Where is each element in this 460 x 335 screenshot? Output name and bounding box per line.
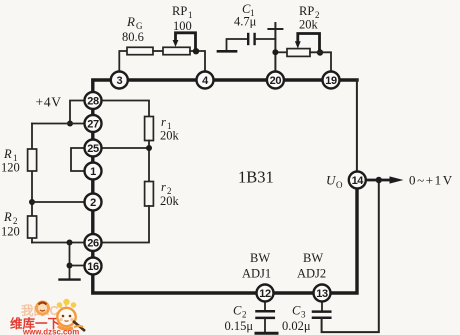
svg-text:25: 25	[87, 143, 99, 155]
loop wire pin25 to pin1	[71, 148, 84, 171]
svg-text:ADJ2: ADJ2	[297, 267, 326, 281]
svg-text:13: 13	[316, 288, 328, 300]
wire pin2	[32, 201, 84, 203]
wire +4V to pin28	[70, 101, 84, 124]
wire C1 to node	[256, 38, 276, 40]
junction pin16 wire	[67, 263, 73, 269]
svg-text:80.6: 80.6	[122, 30, 144, 44]
svg-text:19: 19	[325, 75, 337, 87]
svg-text:R: R	[3, 147, 12, 161]
wire C2 to ground	[264, 319, 266, 332]
label RP1 value	[172, 4, 193, 33]
svg-text:BW: BW	[250, 251, 270, 265]
wire RG to RP1	[153, 50, 163, 52]
label RP2 value	[299, 4, 320, 32]
wire node to RP2	[275, 51, 287, 53]
junction output node	[376, 177, 382, 183]
svg-text:BW: BW	[303, 251, 323, 265]
ground symbol C2	[256, 332, 277, 335]
pin 2	[85, 194, 102, 211]
pin 19	[323, 72, 340, 89]
svg-text:r: r	[161, 115, 166, 129]
resistor r1	[145, 117, 154, 141]
wire C3 return to output node	[322, 180, 379, 332]
label r1 value	[160, 115, 180, 143]
svg-text:R: R	[126, 14, 135, 29]
svg-text:0~+1V: 0~+1V	[409, 173, 454, 188]
resistor RG	[127, 47, 153, 54]
wire pin3 to RG	[119, 51, 128, 71]
ground for C1	[227, 39, 248, 50]
label BW ADJ1	[242, 251, 271, 281]
pin 27	[85, 115, 102, 132]
pin 16	[85, 258, 102, 275]
RP2 wiper arm	[298, 34, 320, 51]
label UO	[326, 173, 343, 191]
svg-text:1: 1	[90, 166, 96, 178]
svg-text:100: 100	[173, 19, 192, 33]
svg-text:0.02μ: 0.02μ	[282, 319, 311, 333]
svg-text:3: 3	[301, 310, 306, 320]
svg-text:2: 2	[242, 310, 247, 320]
svg-text:0.15μ: 0.15μ	[225, 319, 254, 333]
svg-text:16: 16	[87, 261, 99, 273]
pin 4	[197, 72, 214, 89]
op-amp U1 1B31 package outline	[93, 80, 357, 293]
svg-text:1B31: 1B31	[238, 168, 274, 187]
pin 14	[349, 172, 366, 189]
svg-text:26: 26	[87, 237, 99, 249]
arrow head output	[390, 176, 404, 183]
wire RP2 to pin19	[310, 52, 331, 70]
node wire above pin 20	[274, 23, 276, 71]
wire pin25 to r divider	[102, 147, 149, 149]
label C1 value	[234, 2, 257, 29]
label C2 value	[225, 304, 254, 334]
wire pin16	[70, 265, 85, 267]
svg-text:12: 12	[259, 288, 271, 300]
wire r2 bottom to pin26	[102, 206, 149, 243]
svg-text:O: O	[336, 180, 343, 190]
svg-text:C: C	[292, 304, 301, 318]
capacitor C2	[257, 310, 274, 313]
svg-text:20k: 20k	[160, 129, 180, 143]
junction r1/r2/pin25	[146, 145, 152, 151]
svg-text:28: 28	[87, 95, 99, 107]
label r2 value	[160, 180, 180, 208]
label R2 value	[1, 210, 20, 239]
label C3 value	[282, 304, 311, 334]
svg-text:R: R	[3, 210, 12, 224]
svg-text:120: 120	[1, 225, 20, 239]
resistor r2	[145, 182, 154, 207]
junction +4V / pin27 wire	[67, 121, 73, 127]
pin 28	[85, 92, 102, 109]
watermark dzsc logo	[10, 299, 85, 335]
potentiometer RP2	[287, 49, 310, 57]
wire pin12 to C2	[264, 303, 266, 311]
svg-text:27: 27	[87, 118, 99, 130]
pin 1	[85, 163, 102, 180]
svg-text:20: 20	[270, 75, 282, 87]
junction RP1 wiper/pin4	[193, 48, 199, 54]
pin 12	[257, 285, 274, 302]
pin 26	[85, 234, 102, 251]
svg-text:www.dzsc.com: www.dzsc.com	[22, 328, 79, 335]
capacitor C1	[247, 34, 249, 44]
plus polarity mark	[268, 28, 282, 30]
resistor R1	[28, 149, 37, 171]
wire RP1 to pin4	[190, 51, 205, 71]
svg-text:RP: RP	[172, 4, 187, 18]
pin 20	[267, 72, 284, 89]
left branch vertical wire	[31, 124, 33, 243]
svg-text:4.7μ: 4.7μ	[234, 15, 257, 29]
wire pin28 to r1 top	[102, 101, 149, 117]
label RG value	[122, 14, 144, 44]
potentiometer RP1	[163, 47, 190, 54]
junction RP2 wiper	[317, 49, 323, 55]
svg-text:20k: 20k	[299, 18, 319, 32]
label BW ADJ2	[297, 251, 326, 281]
svg-text:+4V: +4V	[36, 95, 62, 110]
output wire from pin14	[367, 179, 392, 182]
svg-text:C: C	[233, 304, 242, 318]
svg-text:2: 2	[90, 197, 96, 209]
wire r1 to r2	[148, 141, 150, 182]
capacitor C3	[313, 310, 330, 313]
svg-text:RP: RP	[299, 4, 314, 18]
label R1 value	[1, 147, 20, 175]
junction ground drop on pin26 wire	[67, 240, 73, 246]
svg-text:r: r	[161, 180, 166, 194]
pin 25	[85, 140, 102, 157]
svg-text:120: 120	[1, 161, 20, 175]
wire R2 bottom to pin26	[32, 242, 84, 244]
pin 13	[314, 285, 331, 302]
junction C1/RP2 node	[272, 49, 278, 55]
wire pin27 to R1 top	[32, 123, 84, 125]
svg-text:20k: 20k	[160, 194, 180, 208]
junction R1/R2 with pin2 wire	[29, 199, 35, 205]
svg-text:ADJ1: ADJ1	[242, 267, 271, 281]
wire ground drop	[69, 243, 71, 279]
pin 3	[111, 72, 128, 89]
svg-text:14: 14	[352, 175, 365, 187]
ground symbol left	[60, 278, 80, 280]
svg-text:3: 3	[116, 75, 122, 87]
RP1 wiper arm	[176, 33, 196, 49]
wire pin13 to C3	[321, 303, 323, 311]
resistor R2	[28, 216, 37, 238]
wire pin19 corner to pin14 (thin right-top edge)	[356, 80, 358, 178]
